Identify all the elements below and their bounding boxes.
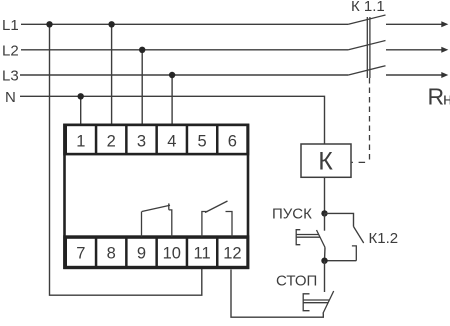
- terminal 8: [97, 239, 125, 266]
- terminal 10: [158, 239, 186, 266]
- contactor coil K: [301, 144, 351, 177]
- svg-text:11: 11: [194, 245, 211, 263]
- svg-text:L3: L3: [2, 68, 19, 85]
- wire L3 rail: [20, 74, 348, 76]
- terminal 1: [67, 126, 95, 153]
- node L1/terminal 2: [108, 21, 114, 27]
- svg-text:К1.2: К1.2: [369, 230, 399, 247]
- wire L2 to terminal 3: [141, 50, 143, 125]
- node L2/terminal 3: [139, 47, 145, 53]
- dashed mechanical link to coil K: [369, 78, 371, 160]
- wire L2 rail: [21, 49, 348, 51]
- terminal 3: [128, 126, 156, 153]
- svg-text:L2: L2: [2, 42, 19, 59]
- terminal 4: [158, 126, 186, 153]
- node L1/left branch: [46, 21, 52, 27]
- output wire L3 with arrow: [386, 72, 448, 78]
- wire L1 rail: [21, 23, 348, 25]
- terminal 5: [188, 126, 216, 153]
- wire L1 left branch to terminal 11: [50, 24, 202, 295]
- start button PUSK (NO): [296, 213, 325, 260]
- relay module bottom terminal band: [63, 235, 249, 269]
- node N/terminal 1: [78, 93, 84, 99]
- wire N rail with drop to coil K: [20, 96, 325, 144]
- terminal 11: [188, 239, 216, 266]
- svg-text:СТОП: СТОП: [276, 272, 317, 289]
- stop button STOP (NC): [303, 261, 334, 314]
- auxiliary contact K1.2 branch: [325, 213, 364, 260]
- terminal 9: [128, 239, 156, 266]
- relay module body: [65, 125, 249, 268]
- svg-text:10: 10: [163, 245, 181, 263]
- contact K1.1 mechanical linkage: [367, 17, 370, 78]
- svg-text:1: 1: [76, 133, 85, 151]
- svg-text:5: 5: [198, 133, 207, 151]
- svg-text:2: 2: [107, 133, 116, 151]
- wire terminal 12 to STOP button bottom: [231, 270, 323, 318]
- terminal 6: [219, 126, 247, 153]
- terminal 12: [219, 239, 247, 266]
- wire L3 to terminal 4: [171, 75, 173, 125]
- svg-text:12: 12: [223, 245, 241, 263]
- terminal 2: [97, 126, 125, 153]
- svg-text:3: 3: [137, 133, 146, 151]
- output wire L2 with arrow: [386, 47, 448, 53]
- svg-text:R: R: [428, 83, 445, 109]
- svg-text:6: 6: [228, 133, 237, 151]
- contact K1.1 blade phase L2: [348, 41, 385, 50]
- terminal 7: [67, 239, 95, 266]
- svg-text:7: 7: [76, 245, 85, 263]
- internal relay contact terminals 11-12 (open): [202, 201, 232, 237]
- svg-text:4: 4: [167, 133, 176, 151]
- wire L1 to terminal 2: [111, 24, 113, 124]
- svg-text:н: н: [443, 89, 450, 108]
- svg-text:К: К: [318, 148, 333, 176]
- relay module top terminal band: [63, 124, 249, 156]
- contact K1.1 blade phase L3: [348, 66, 385, 75]
- wire N to terminal 1: [80, 96, 82, 124]
- node B (bottom of start button): [321, 258, 327, 264]
- node L3/terminal 4: [169, 72, 175, 78]
- svg-text:N: N: [5, 89, 16, 106]
- svg-text:ПУСК: ПУСК: [272, 206, 312, 223]
- svg-text:8: 8: [107, 245, 116, 263]
- svg-text:9: 9: [137, 245, 146, 263]
- load label Rn: [428, 83, 450, 109]
- svg-text:L1: L1: [2, 17, 19, 34]
- wire coil K to node A: [324, 178, 326, 214]
- node A (top of start button): [321, 210, 327, 216]
- contact K1.1 blade phase L1: [348, 15, 385, 24]
- internal relay contact terminals 9-10 (closed): [142, 203, 172, 236]
- svg-text:К 1.1: К 1.1: [351, 0, 385, 15]
- output wire L1 with arrow: [386, 21, 448, 27]
